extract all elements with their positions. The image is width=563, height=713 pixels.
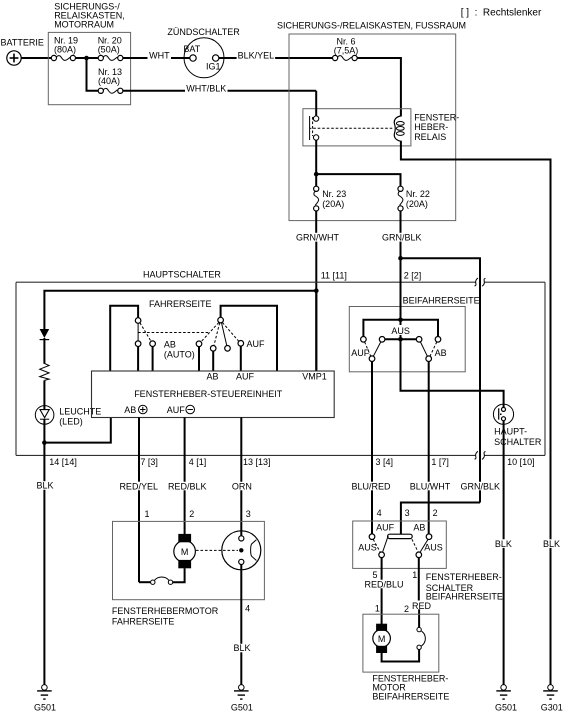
wire GRN/BLK jog to passenger switch pin3	[401, 503, 480, 535]
passenger switch sub box	[349, 307, 465, 372]
driver switch right bracket wire	[221, 306, 277, 371]
svg-text:AUF: AUF	[236, 372, 255, 382]
svg-text:(20A): (20A)	[322, 199, 344, 209]
wire relay contact down to fuse junction	[315, 140, 317, 186]
svg-text:FENSTERHEBER-STEUEREINHEIT: FENSTERHEBER-STEUEREINHEIT	[134, 389, 283, 399]
svg-text:HAUPT-: HAUPT-	[494, 427, 527, 437]
driver switch left common contact	[135, 318, 141, 324]
passenger rocker contacts row	[361, 337, 441, 343]
wire WHT/BLK down to relay contact	[315, 91, 317, 116]
svg-text:1 [7]: 1 [7]	[431, 457, 449, 467]
svg-text:[ ] : Rechtslenker: [ ] : Rechtslenker	[461, 7, 542, 18]
label AB (AUTO)	[164, 339, 195, 359]
svg-text:BEIFAHRERSEITE: BEIFAHRERSEITE	[403, 296, 480, 306]
svg-text:BEIFAHRERSEITE: BEIFAHRERSEITE	[372, 692, 449, 702]
svg-text:2 [2]: 2 [2]	[404, 271, 422, 281]
svg-text:M: M	[181, 547, 189, 557]
wire GRN/WHT fuse23 to main switch pin 11	[315, 211, 317, 233]
wire BLK commutator pin4 to ground	[240, 565, 242, 644]
connector symbol in passenger motor box	[417, 627, 425, 649]
svg-text:AB: AB	[124, 405, 136, 415]
svg-text:14 [14]: 14 [14]	[49, 457, 77, 467]
wire pin2 down into AUS bracket	[400, 258, 402, 339]
ignition switch ZUENDSCHALTER	[167, 27, 240, 78]
wire passenger AUF contact down (BLU/RED)	[371, 362, 373, 482]
svg-text:Nr. 22: Nr. 22	[406, 189, 430, 199]
node AUS bar junction	[398, 337, 403, 342]
svg-text:2: 2	[189, 509, 194, 519]
wire fuse19 to junction to fuse20	[76, 57, 99, 59]
svg-text:AB: AB	[164, 339, 176, 349]
fuse Nr. 20 (50A)	[98, 35, 123, 60]
svg-text:AB: AB	[435, 348, 447, 358]
relay label	[414, 113, 459, 142]
node fuse feed junction	[314, 172, 319, 177]
driver switch right alternate positions dashed	[201, 323, 219, 342]
wire BLK/YEL ignition IG1 to fuse Nr.6	[219, 57, 333, 59]
driver motor M	[174, 534, 196, 568]
main switch lock label	[494, 427, 542, 447]
wire pin 4 RED/BLK to driver motor pin2	[184, 417, 186, 481]
wire battery to fuse box	[21, 57, 51, 59]
svg-text:G301: G301	[541, 703, 563, 713]
svg-text:LEUCHTE: LEUCHTE	[59, 407, 101, 417]
svg-text:2: 2	[433, 508, 438, 518]
passenger switch position lines	[373, 539, 380, 552]
svg-text:BLK: BLK	[495, 539, 512, 549]
wires left contacts to control unit	[137, 347, 139, 372]
passenger motor M	[373, 624, 391, 653]
wire pin 10 BLK to ground G501	[503, 421, 505, 540]
svg-text:4: 4	[245, 603, 250, 613]
wire relay coil to right rail (to G301)	[401, 141, 551, 540]
svg-text:FENSTERHEBER-: FENSTERHEBER-	[426, 572, 502, 582]
svg-text:BLK/YEL: BLK/YEL	[238, 51, 275, 61]
svg-text:WHT/BLK: WHT/BLK	[186, 84, 226, 94]
svg-text:AUF: AUF	[351, 348, 370, 358]
svg-text:AUS: AUS	[358, 543, 377, 553]
svg-text:10 [10]: 10 [10]	[507, 457, 535, 467]
wire RED switch pin1 to motor pin2	[418, 558, 420, 601]
svg-text:FAHRERSEITE: FAHRERSEITE	[149, 299, 212, 309]
driver switch mechanical link dashed	[138, 332, 210, 334]
node junction battery feed	[84, 56, 89, 61]
svg-text:AB: AB	[413, 522, 425, 532]
svg-text:(AUTO): (AUTO)	[164, 349, 195, 359]
svg-text:RED: RED	[412, 601, 432, 611]
svg-text:3 [4]: 3 [4]	[376, 457, 394, 467]
driver switch left contacts	[135, 341, 141, 347]
fuse Nr. 6 (7,5A)	[333, 37, 359, 61]
AUS common bar wire	[385, 338, 416, 340]
svg-text:BEIFAHRERSEITE: BEIFAHRERSEITE	[426, 592, 503, 602]
wire label BLK/YEL	[237, 51, 276, 61]
lamp label	[59, 407, 101, 427]
svg-text:Nr. 23: Nr. 23	[322, 189, 346, 199]
control unit output labels AB+ AUF-	[124, 405, 194, 415]
svg-text:BLK: BLK	[36, 481, 53, 491]
driver switch right common contact	[218, 317, 224, 323]
svg-text:MOTORRAUM: MOTORRAUM	[54, 20, 114, 30]
svg-text:4: 4	[377, 508, 382, 518]
svg-text:FAHRERSEITE: FAHRERSEITE	[112, 617, 175, 627]
label: fuse/relay box engine room title	[54, 2, 125, 30]
wire BLK pin14 to ground G501	[43, 490, 45, 685]
wire WHT/BLK fuse13 toward relay contact	[123, 90, 316, 92]
wire motor bottom loop	[173, 568, 185, 582]
wire GRN/BLK fuse22 down	[400, 211, 402, 233]
svg-text:BLK: BLK	[233, 643, 250, 653]
wire AUS common down and to main switch circle	[401, 339, 504, 407]
wire LED to pin 14 junction	[43, 419, 45, 481]
main switch box outline with wire-break hops	[16, 282, 545, 455]
svg-text:BLU/RED: BLU/RED	[351, 481, 391, 491]
svg-text:4 [1]: 4 [1]	[189, 457, 207, 467]
ground G301 relay rail	[541, 685, 563, 713]
svg-text:5: 5	[373, 570, 378, 580]
svg-text:RED/BLU: RED/BLU	[364, 580, 403, 590]
driver switch left bracket wire	[110, 306, 138, 371]
svg-text:RED/YEL: RED/YEL	[119, 481, 158, 491]
battery symbol	[7, 51, 21, 65]
passenger switch moving contacts	[379, 552, 385, 558]
resistor	[40, 363, 49, 380]
svg-text:BATTERIE: BATTERIE	[1, 37, 44, 47]
driver switch right contacts	[196, 341, 202, 347]
wire RED/BLU switch pin5 to motor pin1	[381, 558, 383, 580]
lamp LEUCHTE (LED)	[35, 406, 54, 425]
control unit FENSTERHEBER-STEUEREINHEIT box	[92, 371, 335, 418]
svg-text:(80A): (80A)	[54, 44, 76, 54]
svg-text:RED/BLK: RED/BLK	[168, 481, 207, 491]
node GRN/BLK branch junction	[398, 256, 403, 261]
wires right contacts to control unit	[198, 347, 200, 371]
svg-text:BLK: BLK	[543, 539, 560, 549]
passenger switch top contacts	[369, 534, 375, 540]
driver motor commutator switch	[222, 531, 261, 570]
wire resistor to LED lamp	[43, 380, 45, 409]
relay internal dashed link	[313, 127, 394, 129]
diode (blocking diode)	[40, 329, 50, 340]
wire GRN/BLK branch to passenger switch (passes through box)	[401, 258, 481, 482]
wire junction to fuse Nr.22	[316, 174, 400, 186]
svg-text:2: 2	[404, 604, 409, 614]
wire junction down to fuse13 row	[87, 58, 99, 91]
passenger rocker moving contacts	[365, 342, 437, 362]
wire fuse6 to relay coil top	[357, 58, 401, 117]
wire VMP1 from pin11	[315, 291, 317, 371]
svg-text:VMP1: VMP1	[302, 372, 327, 382]
svg-text:(LED): (LED)	[59, 417, 83, 427]
node bracket junction	[398, 318, 403, 323]
connector symbol in driver motor box	[151, 577, 173, 584]
wire branch to LED chain	[44, 291, 316, 329]
fuse Nr. 13 (40A)	[98, 67, 123, 94]
svg-text:7 [3]: 7 [3]	[140, 457, 158, 467]
driver motor pin numbers	[145, 509, 251, 519]
svg-text:BAT: BAT	[183, 44, 200, 54]
wire WHT fuse20 to ignition switch BAT	[123, 57, 190, 59]
passenger switch rocker bar	[388, 534, 413, 538]
svg-text:IG1: IG1	[206, 61, 221, 71]
svg-text:GRN/BLK: GRN/BLK	[461, 481, 501, 491]
control unit terminal labels	[207, 372, 327, 382]
main switch lock symbol HAUPT-SCHALTER	[493, 404, 513, 424]
svg-text:RELAIS: RELAIS	[414, 132, 446, 142]
passenger window motor box	[363, 614, 439, 672]
svg-text:AUF: AUF	[376, 522, 395, 532]
ground G501 left	[34, 685, 56, 713]
svg-text:AB: AB	[207, 372, 219, 382]
driver switch left alternate position dashed	[140, 323, 151, 342]
driver window motor box	[113, 521, 265, 599]
svg-text:1: 1	[145, 509, 150, 519]
svg-text:HAUPTSCHALTER: HAUPTSCHALTER	[143, 269, 221, 279]
svg-text:GRN/BLK: GRN/BLK	[382, 232, 422, 242]
svg-text:3: 3	[246, 509, 251, 519]
AUS label	[391, 325, 411, 336]
fuse Nr. 19 (80A)	[51, 35, 78, 60]
wire junction to control unit bottom	[44, 417, 110, 442]
svg-text:M: M	[378, 634, 386, 644]
wire pin 7 RED/YEL to driver motor pin1	[138, 417, 140, 481]
svg-text:(20A): (20A)	[406, 199, 428, 209]
svg-text:(40A): (40A)	[98, 76, 120, 86]
svg-text:BLU/WHT: BLU/WHT	[410, 481, 451, 491]
svg-text:3: 3	[405, 508, 410, 518]
svg-text:(50A): (50A)	[98, 44, 120, 54]
svg-text:AUS: AUS	[424, 543, 443, 553]
relay coil	[394, 116, 404, 141]
wire label WHT	[148, 51, 172, 61]
fuse Nr. 22 (20A)	[398, 186, 430, 211]
svg-text:G501: G501	[231, 703, 253, 713]
wire BLK relay rail to ground G301	[550, 548, 552, 685]
wire passenger AB contact down (BLU/WHT)	[428, 362, 430, 482]
driver motor box label	[112, 606, 219, 627]
AUS bracket wire	[363, 320, 438, 337]
svg-text:AUF: AUF	[247, 339, 266, 349]
driver switch right selector solid position	[222, 323, 227, 346]
svg-text:WHT: WHT	[149, 51, 170, 61]
passenger motor title	[372, 674, 449, 702]
node LED/steuereinheit junction	[42, 440, 47, 445]
fuse/relay box footwell outline	[289, 34, 456, 221]
passenger switch title	[426, 572, 503, 601]
svg-text:AUF: AUF	[167, 405, 186, 415]
ground G501 driver motor	[231, 685, 253, 713]
svg-text:G501: G501	[495, 703, 517, 713]
wire passenger motor bottom loop	[382, 650, 420, 662]
svg-text:FENSTERHEBERMOTOR: FENSTERHEBERMOTOR	[112, 606, 219, 616]
wire diode to resistor	[43, 338, 45, 364]
driver switch left pole line	[137, 323, 139, 341]
wire pin 13 ORN to driver motor pin3	[240, 417, 242, 481]
svg-text:HEBER-: HEBER-	[414, 122, 448, 132]
svg-text:G501: G501	[34, 703, 56, 713]
svg-text:GRN/WHT: GRN/WHT	[296, 232, 339, 242]
wire label WHT/BLK	[185, 84, 228, 94]
svg-text:SCHALTER: SCHALTER	[494, 437, 542, 447]
svg-text:FENSTER-: FENSTER-	[414, 113, 459, 123]
dashed link motor to commutator	[196, 549, 238, 551]
svg-text:ORN: ORN	[232, 481, 252, 491]
fuse/relay box engine room outline	[48, 32, 130, 104]
svg-text:11 [11]: 11 [11]	[321, 271, 347, 281]
svg-text:1: 1	[375, 604, 380, 614]
wire-break hook symbols on box bottom edge	[475, 451, 478, 459]
passenger window switch box	[353, 521, 447, 568]
passenger switch pin labels 4 3 2	[377, 508, 438, 518]
ground G501 main switch pin10	[495, 685, 517, 713]
svg-text:13 [13]: 13 [13]	[243, 457, 271, 467]
relay FENSTERHEBER-RELAIS box	[303, 109, 411, 146]
node branch to LED chain	[314, 288, 319, 293]
svg-text:AUS: AUS	[391, 326, 410, 336]
wire-break hook symbols on box top edge	[475, 278, 478, 286]
relay contact	[310, 116, 319, 140]
fuse Nr. 23 (20A)	[314, 186, 347, 211]
svg-text:SICHERUNGS-/RELAISKASTEN, FUSS: SICHERUNGS-/RELAISKASTEN, FUSSRAUM	[277, 21, 466, 31]
svg-text:(7,5A): (7,5A)	[334, 46, 359, 56]
svg-text:1: 1	[412, 570, 417, 580]
svg-text:ZÜNDSCHALTER: ZÜNDSCHALTER	[167, 27, 240, 37]
